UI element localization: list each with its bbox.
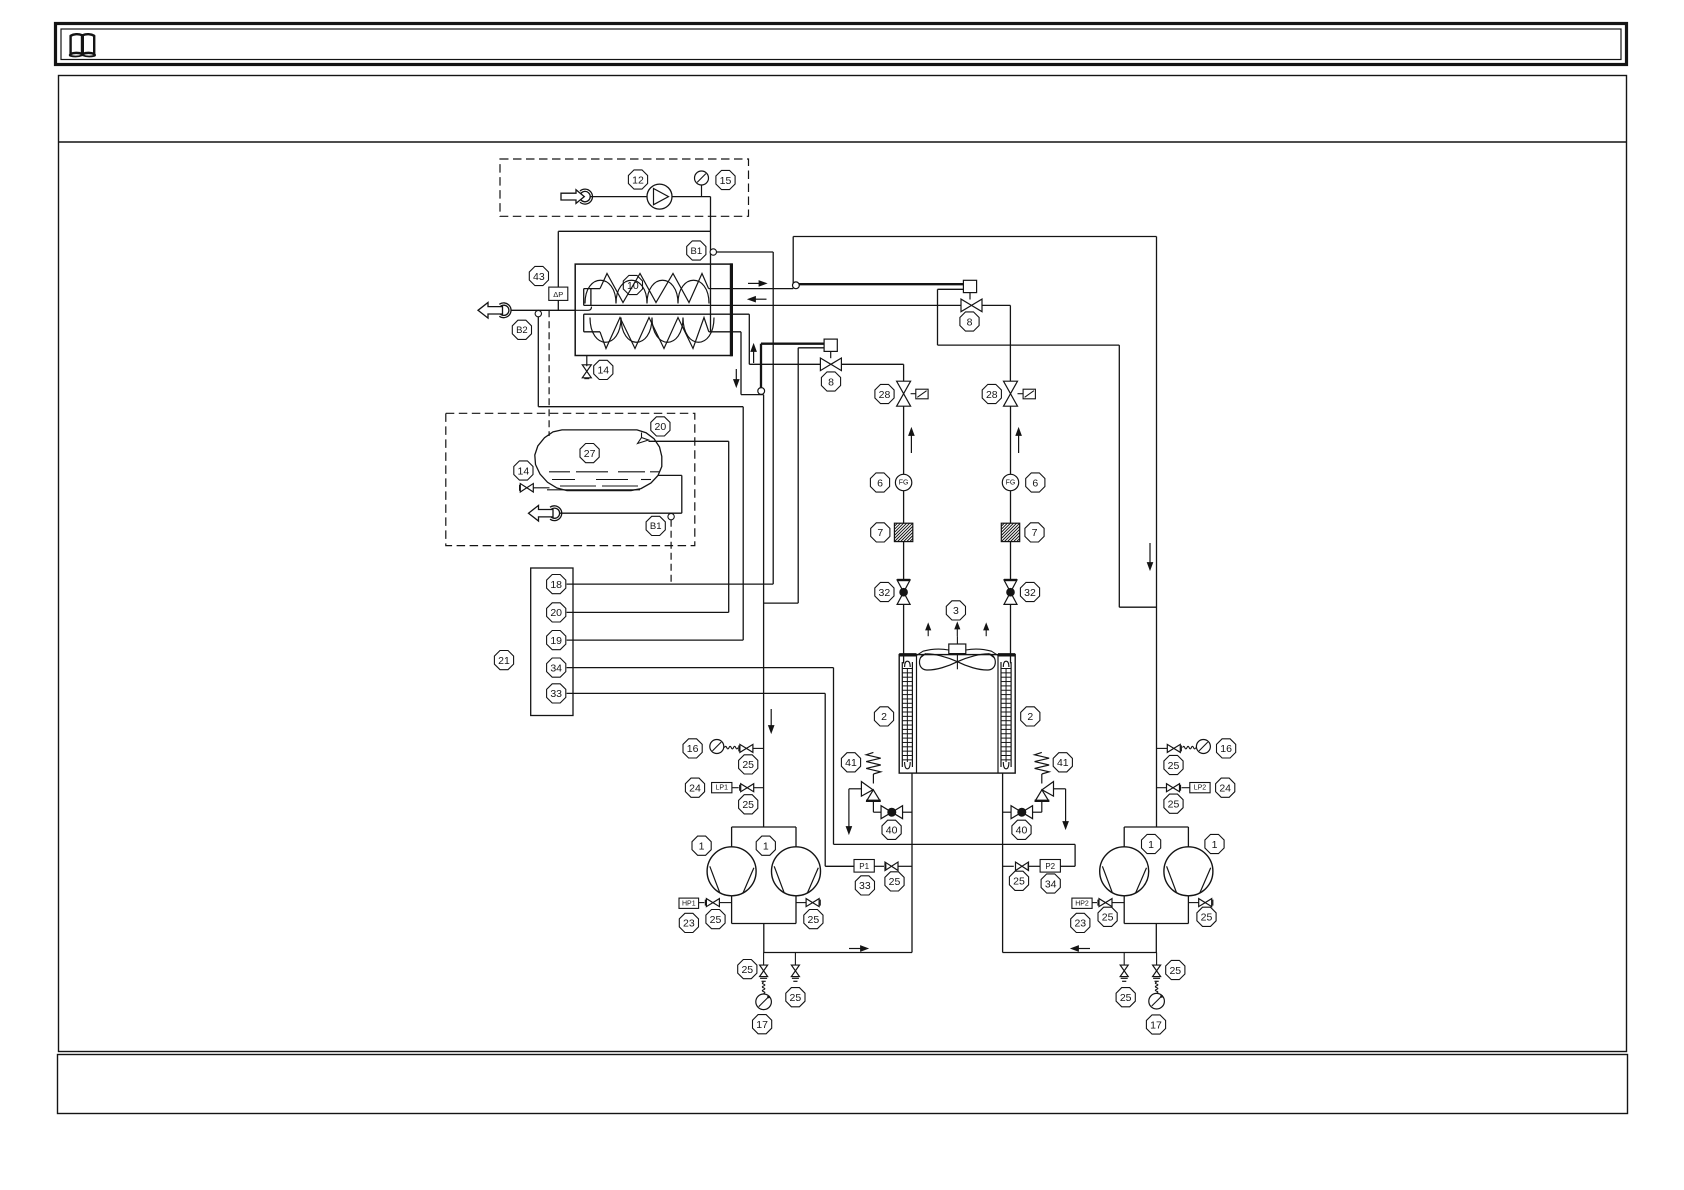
TXV2 capillary <box>799 283 964 285</box>
wire relief to valve 40 right <box>1041 801 1043 812</box>
svg-text:25: 25 <box>710 914 722 926</box>
label 28 left <box>875 384 894 403</box>
hx upper coil zigzag <box>600 274 709 303</box>
label B1 top <box>687 241 706 260</box>
wire terminal 19 <box>567 639 744 641</box>
label 15 <box>716 170 735 189</box>
hx water channel bottom line / TXV circuit1 feed <box>584 313 750 315</box>
buffer tank 27 <box>535 430 662 491</box>
svg-text:33: 33 <box>550 688 562 700</box>
hx lower coil zigzag <box>600 318 709 349</box>
terminal 18 <box>547 575 566 594</box>
svg-text:6: 6 <box>1032 477 1038 489</box>
wire discharge circuit1 <box>911 773 913 952</box>
relief 41 left vent <box>849 788 862 790</box>
svg-text:43: 43 <box>533 271 545 283</box>
solenoid valve 28 right <box>1004 381 1018 394</box>
svg-text:LP1: LP1 <box>716 785 729 792</box>
valve 28 bypass box right <box>1023 389 1035 399</box>
label 27 <box>580 444 599 463</box>
hx water outlet elbow <box>575 307 591 311</box>
svg-text:41: 41 <box>845 757 857 769</box>
svg-text:3: 3 <box>953 605 959 617</box>
svg-text:25: 25 <box>808 914 820 926</box>
label 25 gauge tap right <box>1164 755 1183 774</box>
terminal 34 <box>547 658 566 677</box>
pump 12 <box>647 184 672 209</box>
svg-text:P1: P1 <box>859 862 869 871</box>
wire compressor discharge manifold <box>1123 896 1125 924</box>
label 25 tap right circuit2 <box>1197 907 1216 926</box>
label 7 right <box>1025 523 1044 542</box>
water outlet symbol <box>478 303 503 319</box>
svg-text:7: 7 <box>1032 527 1038 539</box>
flow arrow down right suction <box>1149 543 1151 563</box>
dashed box tank module <box>446 413 695 545</box>
service valve 32 left <box>897 579 910 581</box>
wire pump line down to heat exchanger <box>710 197 712 332</box>
wire valve 40 left to liquid line <box>903 811 913 813</box>
svg-text:40: 40 <box>886 825 898 837</box>
hx lower coil scallops <box>590 318 714 343</box>
label 40 right <box>1012 820 1031 839</box>
wire relief to valve 40 left <box>872 801 874 812</box>
svg-text:25: 25 <box>790 992 802 1004</box>
hx lower coil header step <box>583 314 585 332</box>
svg-text:1: 1 <box>1212 839 1218 851</box>
svg-text:7: 7 <box>877 527 883 539</box>
wire valve 40 right to liquid line <box>1003 811 1012 813</box>
svg-text:25: 25 <box>742 799 754 811</box>
svg-text:1: 1 <box>763 841 769 853</box>
wire chilled water outlet <box>511 309 575 311</box>
compressor 1 <box>707 847 756 896</box>
relief valve 41 left body <box>861 782 873 797</box>
plate heat exchanger 10 body <box>575 264 732 355</box>
valve 28 bypass box left <box>916 389 928 399</box>
condenser coil right <box>1000 662 1002 767</box>
label 24 right <box>1216 778 1235 797</box>
svg-text:8: 8 <box>828 376 834 388</box>
label 25 at P1 valve <box>885 872 904 891</box>
label 41 left <box>841 753 860 772</box>
filter drier 7 right <box>1001 523 1019 541</box>
wire B1 to terminal 18 riser <box>717 251 774 253</box>
wire compressor suction manifold <box>1124 826 1188 828</box>
differential pressure switch dP <box>549 287 568 300</box>
discharge gauge stub circuit2 <box>1156 953 1158 966</box>
svg-text:28: 28 <box>879 389 891 401</box>
label 25 HP2 valve <box>1098 907 1117 926</box>
label 25 gauge stub1 <box>738 960 757 979</box>
compressor 1 <box>1100 847 1149 896</box>
compressor tap valve right circuit1 <box>796 902 806 904</box>
relief valve 41 left spring <box>866 752 881 774</box>
wire B2 alternative dashed to tank <box>548 310 550 436</box>
svg-text:2: 2 <box>881 711 887 723</box>
relief valve 41 right body <box>1042 782 1054 797</box>
sensor node B1 tank <box>668 513 674 519</box>
LP2 tap <box>1157 787 1167 789</box>
svg-text:25: 25 <box>1102 912 1114 924</box>
sight glass FG right <box>1002 474 1018 490</box>
discharge gauge stub circuit1 <box>763 953 765 966</box>
terminal 19 <box>547 631 566 650</box>
svg-text:17: 17 <box>756 1019 768 1031</box>
terminal block 21 box <box>531 568 573 716</box>
svg-text:21: 21 <box>498 655 510 667</box>
label 21 <box>494 651 513 670</box>
relief 41 right vent <box>1054 788 1066 790</box>
svg-text:HP2: HP2 <box>1075 900 1089 907</box>
svg-text:25: 25 <box>1169 965 1181 977</box>
footer frame <box>58 1055 1628 1114</box>
label 25 stub2 <box>1116 988 1135 1007</box>
solenoid valve 28 left <box>897 381 911 394</box>
service valve 32 right <box>1004 579 1017 581</box>
condenser top bars <box>899 653 916 656</box>
label 25 tap right circuit1 <box>804 910 823 929</box>
label 16 right <box>1217 739 1236 758</box>
condenser inner walls <box>916 655 918 773</box>
flow arrow down suction1 <box>770 709 772 726</box>
svg-text:B1: B1 <box>690 246 702 257</box>
label B2 <box>512 320 531 339</box>
fan blades <box>919 654 957 670</box>
service stub circuit1 <box>794 953 796 966</box>
label 32 right <box>1020 582 1039 601</box>
service stub circuit2 <box>1123 953 1125 966</box>
label 14 tank <box>514 461 533 480</box>
pressure gauge 15 <box>701 185 703 197</box>
label 20 tank <box>651 417 670 436</box>
wire terminal 33 to P1 <box>567 692 826 694</box>
HP2 switch <box>1072 898 1092 908</box>
label 41 right <box>1053 753 1072 772</box>
wire B1 tank dashed to terminal 18 <box>670 520 672 584</box>
TXV1 capillary <box>760 344 762 388</box>
svg-text:25: 25 <box>1120 992 1132 1004</box>
svg-text:17: 17 <box>1150 1019 1162 1031</box>
label 14 hx drain <box>594 360 613 379</box>
wire TXV2 inlet from liquid column <box>982 304 1010 306</box>
TXV1 bulb node <box>758 388 765 395</box>
flow arrow discharge1 <box>849 948 861 950</box>
label 6 left <box>870 473 889 492</box>
tank outlet pipe <box>658 474 682 476</box>
label 32 left <box>875 582 894 601</box>
tank liquid level dashes <box>549 471 570 473</box>
frame divider line <box>59 141 1627 143</box>
svg-text:25: 25 <box>1201 912 1213 924</box>
flow arrow up column right <box>1018 436 1020 454</box>
suction gauge tap circuit2 <box>1157 747 1168 749</box>
terminal 20 <box>547 603 566 622</box>
hx water channel top line / TXV circuit2 feed <box>584 304 732 306</box>
svg-text:28: 28 <box>986 389 998 401</box>
svg-text:25: 25 <box>1168 760 1180 772</box>
svg-text:25: 25 <box>889 876 901 888</box>
svg-text:25: 25 <box>1013 876 1025 888</box>
svg-text:27: 27 <box>584 448 596 460</box>
svg-text:20: 20 <box>655 421 667 433</box>
flow arrow left into hx <box>756 298 767 300</box>
fan motor 3 <box>949 644 966 654</box>
svg-text:16: 16 <box>687 743 699 755</box>
svg-text:LP2: LP2 <box>1194 785 1207 792</box>
svg-text:B1: B1 <box>650 521 662 532</box>
shut-off valve 40 right <box>1011 806 1022 819</box>
svg-text:20: 20 <box>550 607 562 619</box>
label 16 left <box>683 739 702 758</box>
label 33 at P1 <box>855 876 874 895</box>
relief valve 41 right spring <box>1035 752 1050 774</box>
sight glass FG left <box>895 474 911 490</box>
svg-text:1: 1 <box>699 841 705 853</box>
label 10 <box>623 275 642 294</box>
label 25 LP2 tap <box>1164 794 1183 813</box>
svg-text:32: 32 <box>879 587 891 599</box>
svg-text:HP1: HP1 <box>682 900 696 907</box>
svg-text:25: 25 <box>1168 799 1180 811</box>
sensor node B1 top <box>710 249 716 255</box>
label 43 <box>529 266 548 285</box>
svg-text:B2: B2 <box>516 325 528 336</box>
svg-text:41: 41 <box>1057 757 1069 769</box>
svg-text:8: 8 <box>967 316 973 328</box>
expansion valve 8 circuit1 <box>824 339 837 351</box>
svg-text:23: 23 <box>683 918 695 930</box>
label 8 right <box>960 312 979 331</box>
LP1 tap <box>754 787 764 789</box>
svg-text:6: 6 <box>877 477 883 489</box>
compressor 1 <box>772 847 821 896</box>
wire discharge circuit2 <box>1002 773 1004 952</box>
TXV2 bulb node <box>793 282 800 289</box>
wire column to condenser coil right <box>1010 604 1012 663</box>
svg-text:15: 15 <box>720 175 732 187</box>
pressure transducer P2 <box>1040 860 1060 873</box>
label 3 <box>946 601 965 620</box>
sensor node B2 <box>535 310 541 316</box>
wire compressor suction manifold <box>732 826 796 828</box>
filter drier 7 left <box>894 523 912 541</box>
wire terminal 34 to P2 <box>567 667 834 669</box>
label 8 left <box>821 372 840 391</box>
terminal 33 <box>547 684 566 703</box>
wire compressor discharge manifold <box>731 896 733 924</box>
condenser coil left <box>901 662 903 767</box>
svg-text:23: 23 <box>1074 918 1086 930</box>
open book manual icon <box>70 34 95 56</box>
expansion valve 8 circuit2 <box>963 280 976 292</box>
label 28 right <box>982 384 1001 403</box>
svg-text:14: 14 <box>597 365 609 377</box>
wire level sensor 20 to terminal <box>649 440 729 442</box>
tank drain valve 14 <box>520 484 527 493</box>
svg-text:ΔP: ΔP <box>553 290 563 299</box>
wire liquid column right <box>1010 406 1012 474</box>
label 25 LP1 tap <box>739 795 758 814</box>
svg-text:1: 1 <box>1148 839 1154 851</box>
hx upper coil scallops <box>585 280 709 303</box>
dashed box pump module <box>500 159 749 216</box>
svg-text:24: 24 <box>689 783 701 795</box>
svg-text:18: 18 <box>550 579 562 591</box>
wire terminal 18 <box>567 583 774 585</box>
wire B2 to terminal 19 <box>537 317 539 407</box>
label 25 gauge tap left <box>739 755 758 774</box>
label 24 left <box>685 778 704 797</box>
svg-text:33: 33 <box>859 880 871 892</box>
fan shroud curves <box>917 649 949 655</box>
wire circuit1 suction from hx <box>709 331 741 333</box>
svg-text:P2: P2 <box>1045 862 1055 871</box>
hx upper coil header <box>584 288 600 290</box>
label 25 at P2 valve <box>1009 871 1028 890</box>
label 7 left <box>871 523 890 542</box>
svg-text:25: 25 <box>742 759 754 771</box>
label 17 left <box>753 1015 772 1034</box>
label 2 left <box>874 707 893 726</box>
label 25 HP1 valve <box>706 910 725 929</box>
label 1 octagons <box>692 836 711 855</box>
label 40 left <box>882 820 901 839</box>
label 6 right <box>1026 473 1045 492</box>
svg-text:16: 16 <box>1220 743 1232 755</box>
svg-text:34: 34 <box>550 662 562 674</box>
svg-text:FG: FG <box>1006 480 1016 487</box>
wire TXV2 outlet into hx <box>731 304 961 306</box>
label 23 left <box>679 913 698 932</box>
wire TXV1 outlet into hx <box>749 363 820 365</box>
label 17 right <box>1146 1015 1165 1034</box>
compressor tap valve right circuit2 <box>1188 902 1199 904</box>
svg-text:FG: FG <box>899 480 909 487</box>
wire TXV1 inlet from liquid column <box>841 363 903 365</box>
label 2 right <box>1021 707 1040 726</box>
label B1 tank <box>646 516 665 535</box>
wire column to condenser coil left <box>903 604 905 663</box>
svg-text:2: 2 <box>1027 711 1033 723</box>
HP1 switch <box>679 898 699 908</box>
TXV2 equalizer line <box>938 288 964 290</box>
header outer double border bar <box>56 24 1627 65</box>
suction gauge tap circuit1 <box>753 747 764 749</box>
svg-text:14: 14 <box>518 465 530 477</box>
svg-text:25: 25 <box>741 964 753 976</box>
wire circuit2 suction from hx <box>709 288 794 290</box>
wire pump suction line <box>591 196 648 198</box>
hx drain valve 14 <box>586 356 588 367</box>
tank outlet symbol <box>529 505 554 521</box>
wire terminal 20 <box>567 611 729 613</box>
label 34 at P2 <box>1041 874 1060 893</box>
svg-text:12: 12 <box>632 174 644 186</box>
label 12 <box>628 170 647 189</box>
flow arrow right <box>748 282 759 284</box>
shut-off valve 40 left <box>881 806 892 819</box>
label 25 stub1 <box>786 988 805 1007</box>
svg-text:34: 34 <box>1045 878 1057 890</box>
TXV1 equalizer line <box>798 347 824 349</box>
flow arrow discharge2 <box>1079 948 1091 950</box>
svg-text:24: 24 <box>1219 783 1231 795</box>
wire dP pressure tap <box>558 230 710 232</box>
water inlet symbol <box>561 190 584 204</box>
flow arrow down beside hx outlet <box>735 369 737 380</box>
svg-text:19: 19 <box>550 635 562 647</box>
label 23 right <box>1071 913 1090 932</box>
pressure transducer P1 <box>854 860 874 873</box>
tank level sensor 20 <box>638 438 649 444</box>
main drawing frame <box>59 76 1627 1052</box>
condenser box 2 <box>899 655 1015 774</box>
svg-text:40: 40 <box>1016 825 1028 837</box>
air flow arrows <box>927 630 929 636</box>
wire circuit2 suction riser and long right line <box>792 237 794 289</box>
wire liquid column left <box>903 406 905 474</box>
label 25 gauge stub2 <box>1166 960 1185 979</box>
flow arrow up TXV1 feed <box>753 352 755 364</box>
svg-text:32: 32 <box>1024 587 1036 599</box>
flow arrow up column left <box>910 436 912 454</box>
compressor 1 <box>1164 847 1213 896</box>
